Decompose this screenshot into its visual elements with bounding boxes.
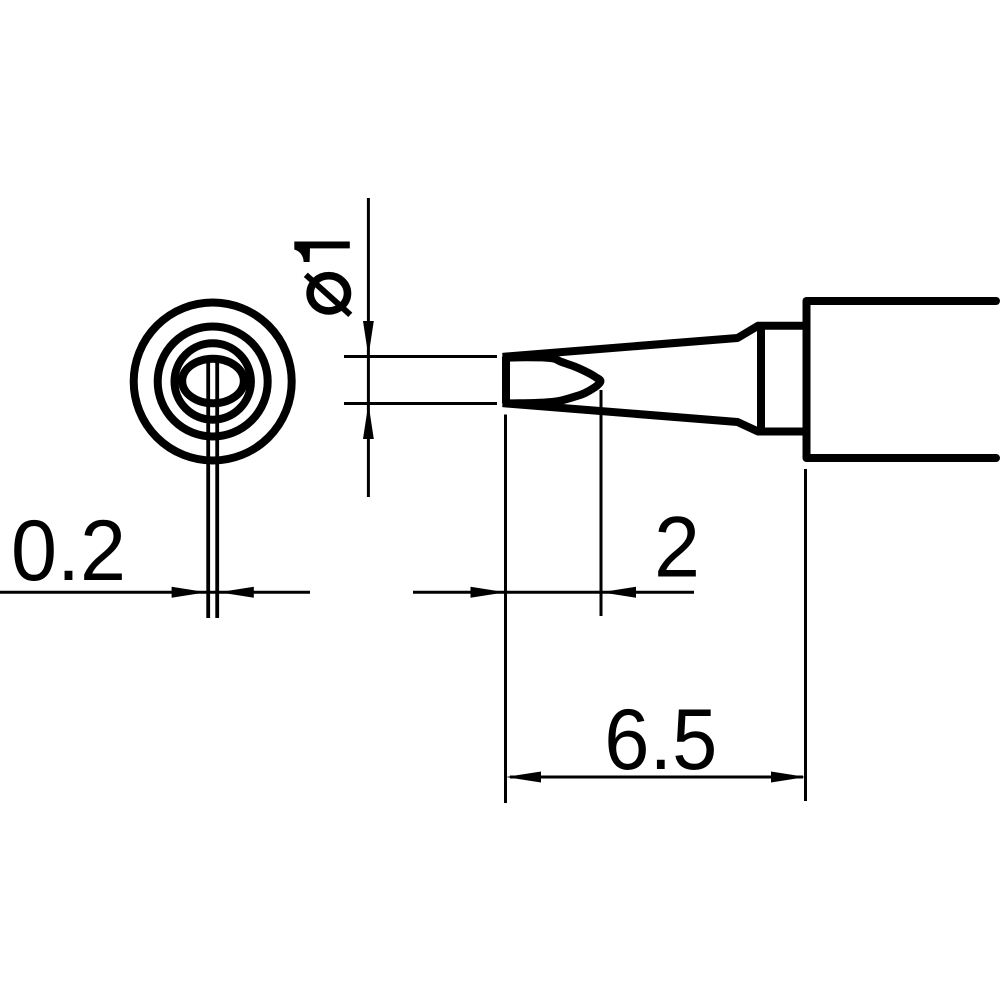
dim 2 extension line at tip face <box>504 415 507 804</box>
side view cone top outline <box>503 326 807 357</box>
dia1 extension line bottom <box>344 402 497 405</box>
arrow 2 left (pointing right) <box>471 587 506 598</box>
front view third circle <box>175 343 251 419</box>
label dia 1 digit one (rotated, drawn) <box>294 242 350 263</box>
front view outer circle <box>134 303 292 461</box>
arrow 0.2 right (pointing left) <box>219 587 254 598</box>
svg-text:2: 2 <box>654 500 700 596</box>
dia1 dimension line <box>367 198 370 497</box>
label dia 1 diameter symbol (rotated, drawn) <box>306 275 351 315</box>
dim 6.5 line <box>510 776 803 779</box>
side view collar vertical line <box>757 324 765 433</box>
side view cone bottom outline <box>503 403 807 431</box>
dim 6.5 extension line at shaft <box>804 469 807 801</box>
side view shaft top edge <box>807 297 997 305</box>
arrow 0.2 left (pointing right) <box>172 587 207 598</box>
svg-text:6.5: 6.5 <box>604 692 717 788</box>
svg-text:0.2: 0.2 <box>11 503 126 599</box>
front view inner ellipse <box>182 359 244 404</box>
arrow 6.5 left (pointing left) <box>506 772 541 783</box>
dim 2 line <box>413 591 694 594</box>
side view shaft left edge <box>803 301 811 458</box>
side view tip face <box>502 357 510 404</box>
front view second circle <box>158 327 268 437</box>
arrow dia1 down <box>363 321 374 357</box>
side view chisel face curve <box>507 357 600 403</box>
dim 2 extension line at chisel end <box>600 390 603 616</box>
dim 0.2 line <box>0 591 310 594</box>
slot left line <box>206 356 210 618</box>
dia1 extension line top <box>344 355 497 358</box>
slot right line <box>215 356 219 618</box>
side view shaft bottom edge <box>807 454 997 462</box>
arrow 6.5 right (pointing right) <box>771 772 806 783</box>
arrow dia1 up <box>363 404 374 440</box>
arrow 2 right (pointing left) <box>601 587 636 598</box>
